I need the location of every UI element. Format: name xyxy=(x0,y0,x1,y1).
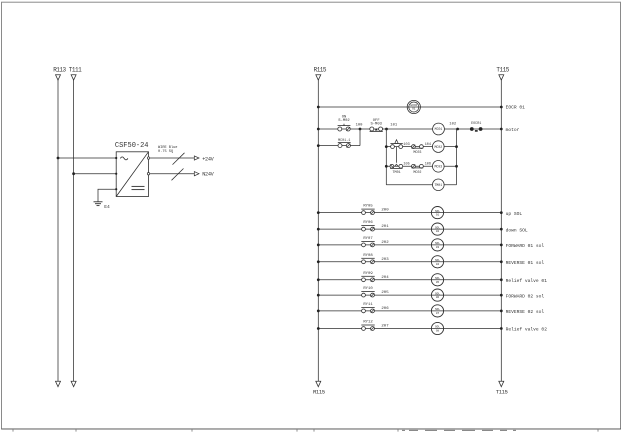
svg-text:SOL: SOL xyxy=(435,308,440,311)
junction node 102 xyxy=(456,128,459,131)
node 201 label xyxy=(381,225,389,229)
rail wire T115 (vertical) xyxy=(500,79,502,382)
mechanical link TM01 contacts xyxy=(396,147,398,163)
svg-text:MC02: MC02 xyxy=(413,171,421,175)
timer coil TM01 xyxy=(433,179,445,191)
wire R113 to U1 input L xyxy=(58,157,116,159)
svg-text:07: 07 xyxy=(436,312,440,315)
junction T115/EOCR rung xyxy=(500,106,503,109)
junction R115/motor rung xyxy=(317,128,320,131)
net label T115 (top) xyxy=(496,66,509,73)
solenoid coil SOL 03 xyxy=(431,239,443,251)
node 203 label xyxy=(381,258,389,262)
relay contact RY08 (NO) xyxy=(361,254,374,264)
net label R115 (bottom) xyxy=(313,389,325,396)
junction R115/down SOL rung xyxy=(317,228,320,231)
junction T115/FORWARD 01 sol rung xyxy=(500,244,503,247)
node 102 label xyxy=(449,123,457,127)
wire FORWARD 02 sol rung xyxy=(318,294,501,296)
junction node 101 xyxy=(385,128,388,131)
wire Relief valve 02 rung xyxy=(318,328,501,330)
svg-text:S-M03: S-M03 xyxy=(370,123,382,127)
svg-text:EOCR1: EOCR1 xyxy=(471,122,481,126)
junction T115/REVERSE 01 sol rung xyxy=(500,260,503,263)
svg-text:03: 03 xyxy=(436,246,440,249)
off-page arrow R113 (bottom) xyxy=(56,381,61,386)
solenoid coil SOL 08 xyxy=(431,322,443,334)
off-page arrow N24V xyxy=(194,172,199,176)
net label R113 xyxy=(53,66,66,73)
interlock contact MC03-b (NC) xyxy=(412,145,424,155)
U1 pin N terminal xyxy=(115,173,117,175)
solenoid coil SOL 05 xyxy=(431,274,443,286)
svg-text:06: 06 xyxy=(436,296,440,299)
rung name label Relief valve 01 xyxy=(506,278,548,284)
contactor coil MC01 xyxy=(433,123,445,135)
rail wire T111 (vertical) xyxy=(73,79,75,382)
wire FORWARD 01 sol rung xyxy=(318,244,501,246)
svg-text:SOL: SOL xyxy=(435,242,440,245)
net label N24V xyxy=(202,172,214,178)
junction T115/down SOL rung xyxy=(500,228,503,231)
U1 pin L terminal xyxy=(115,157,117,159)
svg-text:+24V: +24V xyxy=(202,156,214,162)
svg-text:RY12: RY12 xyxy=(363,321,373,325)
svg-text:RY09: RY09 xyxy=(363,272,373,276)
svg-text:MC03: MC03 xyxy=(434,165,442,169)
junction R115/up SOL rung xyxy=(317,211,320,214)
solenoid coil SOL 07 xyxy=(431,305,443,317)
rail wire R115 (vertical) xyxy=(317,79,319,382)
wire slash mark (+24V) xyxy=(173,153,185,165)
svg-text:0.75 SQ: 0.75 SQ xyxy=(158,150,173,154)
svg-text:05: 05 xyxy=(436,281,440,284)
wire slash mark (N24V) xyxy=(172,169,184,181)
rung name label EOCR 01 xyxy=(506,105,526,111)
junction T115/Relief valve 01 rung xyxy=(500,278,503,281)
relay contact RY07 (NO) xyxy=(361,237,374,247)
svg-text:motor: motor xyxy=(506,127,520,133)
svg-text:REVERSE 01 sol: REVERSE 01 sol xyxy=(506,260,545,266)
junction feeder/MC02 rung xyxy=(385,145,388,148)
svg-text:204: 204 xyxy=(381,276,389,280)
rung name label motor xyxy=(506,127,520,133)
source arrow R115 (top) xyxy=(316,75,321,80)
node 105 label xyxy=(403,163,409,167)
off-page arrow T115 (bottom) xyxy=(499,381,504,386)
source arrow T115 (top) xyxy=(499,75,504,80)
svg-text:206: 206 xyxy=(381,307,389,311)
junction R115/FORWARD 01 sol rung xyxy=(317,244,320,247)
svg-text:105: 105 xyxy=(403,163,409,167)
svg-text:SOL: SOL xyxy=(435,259,440,262)
wire T111 to U1 input N xyxy=(74,173,117,175)
junction T115/Relief valve 02 rung xyxy=(500,327,503,330)
relay contact RY11 (NO) xyxy=(361,303,374,313)
svg-text:RY07: RY07 xyxy=(363,237,373,241)
svg-text:RY08: RY08 xyxy=(363,254,373,258)
svg-text:T115: T115 xyxy=(496,66,509,73)
wire MC03 rung xyxy=(386,165,456,167)
svg-text:RY10: RY10 xyxy=(363,287,373,291)
contactor coil MC02 xyxy=(433,141,445,153)
svg-text:REVERSE 02 sol: REVERSE 02 sol xyxy=(506,309,545,315)
svg-text:01: 01 xyxy=(412,107,416,110)
node 101 label xyxy=(390,124,398,128)
node 205 label xyxy=(381,291,389,295)
ground designator E4 xyxy=(104,204,110,210)
junction R115/REVERSE 02 sol rung xyxy=(317,310,320,313)
U1 pin +V terminal xyxy=(147,157,149,159)
svg-text:S-M02: S-M02 xyxy=(338,119,350,123)
junction T115/up SOL rung xyxy=(500,211,503,214)
svg-text:202: 202 xyxy=(381,241,389,245)
junction collector/MC02 rung xyxy=(455,145,458,148)
junction T115/motor rung xyxy=(500,128,503,131)
rung name label REVERSE 02 sol xyxy=(506,309,545,315)
junction collector/MC03 rung xyxy=(455,165,458,168)
rung name label down SOL xyxy=(506,227,528,233)
wire collector vertical (node 102 down) xyxy=(456,129,458,185)
rung name label FORWARD 02 sol xyxy=(506,293,545,299)
source arrow R113 (top) xyxy=(56,75,61,80)
svg-text:Relief valve 01: Relief valve 01 xyxy=(506,278,548,284)
net label +24V xyxy=(202,156,214,162)
svg-text:SOL: SOL xyxy=(435,292,440,295)
junction on T111 xyxy=(72,172,75,175)
svg-text:101: 101 xyxy=(390,124,398,128)
node 103 label xyxy=(403,143,409,147)
svg-text:T115: T115 xyxy=(496,389,508,396)
interlock contact MC02-b (NC) xyxy=(412,164,424,174)
svg-text:RY11: RY11 xyxy=(363,303,373,307)
svg-text:E4: E4 xyxy=(104,204,110,210)
wire MC02 rung xyxy=(386,146,456,148)
pushbutton ON S-M02 (NO) xyxy=(338,116,351,131)
junction R115/MC01-1 branch xyxy=(317,144,320,147)
wire MC01-1 branch from R115 xyxy=(318,145,360,147)
svg-text:103: 103 xyxy=(403,143,409,147)
svg-text:TM01: TM01 xyxy=(434,183,442,187)
net label T115 (bottom) xyxy=(496,389,508,396)
junction R115/Relief valve 02 rung xyxy=(317,327,320,330)
junction R115/Relief valve 01 rung xyxy=(317,278,320,281)
wire Relief valve 01 rung xyxy=(318,279,501,281)
junction node 100 xyxy=(359,128,362,131)
svg-text:104: 104 xyxy=(425,143,431,147)
relay contact RY05 (NO) xyxy=(361,205,374,215)
power supply U1 value label CSF50-24 xyxy=(115,142,149,150)
svg-text:04: 04 xyxy=(436,263,440,266)
junction T115/FORWARD 02 sol rung xyxy=(500,294,503,297)
svg-text:MC01: MC01 xyxy=(435,127,443,131)
svg-text:106: 106 xyxy=(425,162,431,166)
relay contact RY10 (NO) xyxy=(361,287,374,297)
rung name label up SOL xyxy=(506,211,523,217)
svg-text:08: 08 xyxy=(436,330,440,333)
solenoid coil SOL 02 xyxy=(431,223,443,235)
svg-text:down SOL: down SOL xyxy=(506,227,528,233)
svg-text:FORWARD 02 sol: FORWARD 02 sol xyxy=(506,293,545,299)
wire U1 +V output to +24V xyxy=(149,157,195,159)
power supply U1 (AC/DC converter box) xyxy=(116,152,148,197)
relay contact RY12 (NO) xyxy=(361,321,374,331)
auxiliary contact MC01-1 (NO) xyxy=(338,139,351,148)
timer contact TM01-b (NC) xyxy=(390,164,403,175)
svg-text:207: 207 xyxy=(381,325,389,329)
wire MC01-1 branch up to node 100 xyxy=(359,129,361,146)
U1 pin FG terminal xyxy=(115,188,117,190)
wire U1 FG to ground xyxy=(98,189,116,201)
wire TM01 rung xyxy=(386,184,456,186)
svg-text:T111: T111 xyxy=(69,66,82,73)
svg-text:205: 205 xyxy=(381,291,389,295)
svg-text:Relief valve 02: Relief valve 02 xyxy=(506,327,548,333)
wire up SOL rung xyxy=(318,212,501,214)
rung name label Relief valve 02 xyxy=(506,327,548,333)
wire REVERSE 01 sol rung xyxy=(318,261,501,263)
svg-text:02: 02 xyxy=(436,230,440,233)
svg-text:RY06: RY06 xyxy=(363,221,373,225)
node 200 label xyxy=(381,209,389,213)
junction on R113 xyxy=(57,157,60,160)
svg-text:FORWARD 01 sol: FORWARD 01 sol xyxy=(506,243,545,249)
rung name label FORWARD 01 sol xyxy=(506,243,545,249)
junction feeder/MC03 rung xyxy=(385,165,388,168)
wire U1 -V output to N24V xyxy=(149,173,195,175)
junction T115/REVERSE 02 sol rung xyxy=(500,310,503,313)
svg-text:MC03: MC03 xyxy=(413,151,421,155)
wire EOCR rung xyxy=(318,106,501,108)
node 104 label xyxy=(425,143,431,147)
svg-text:SOL: SOL xyxy=(435,226,440,229)
node 202 label xyxy=(381,241,389,245)
relay contact RY09 (NO) xyxy=(361,272,374,282)
off-page arrow R115 (bottom) xyxy=(316,381,321,386)
svg-text:N24V: N24V xyxy=(202,172,214,178)
svg-text:201: 201 xyxy=(381,225,389,229)
svg-text:SOL: SOL xyxy=(435,210,440,213)
svg-text:up SOL: up SOL xyxy=(506,211,523,217)
svg-text:SOL: SOL xyxy=(435,277,440,280)
timer contact TM01-a (on-delay NO) xyxy=(390,140,402,149)
junction R115/EOCR rung xyxy=(317,106,320,109)
svg-text:100: 100 xyxy=(356,123,364,127)
svg-text:TM01: TM01 xyxy=(393,171,401,175)
svg-text:RY05: RY05 xyxy=(363,205,373,209)
svg-text:EOCR 01: EOCR 01 xyxy=(506,105,526,111)
solenoid coil SOL 04 xyxy=(431,256,443,268)
wire feeder vertical (node 101 down) xyxy=(385,129,387,185)
node 206 label xyxy=(381,307,389,311)
svg-text:R113: R113 xyxy=(53,66,66,73)
node 207 label xyxy=(381,325,389,329)
rail wire R113 (vertical) xyxy=(57,79,59,382)
svg-text:01: 01 xyxy=(436,214,440,217)
ground E4 xyxy=(94,202,103,206)
junction R115/FORWARD 02 sol rung xyxy=(317,294,320,297)
wire note WIRE Blue 0.75 SQ xyxy=(158,145,177,154)
relay contact RY06 (NO) xyxy=(361,221,374,231)
solenoid coil SOL 06 xyxy=(431,289,443,301)
svg-text:CSF50-24: CSF50-24 xyxy=(115,142,149,150)
off-page arrow +24V xyxy=(194,156,199,160)
solenoid coil SOL 01 xyxy=(431,207,443,219)
svg-text:R115: R115 xyxy=(314,66,327,73)
wire down SOL rung xyxy=(318,228,501,230)
contactor coil MC03 xyxy=(433,161,445,173)
source arrow T111 (top) xyxy=(71,75,76,80)
off-page arrow T111 (bottom) xyxy=(71,381,76,386)
svg-text:MC01-1: MC01-1 xyxy=(338,139,350,143)
wire REVERSE 02 sol rung xyxy=(318,310,501,312)
svg-text:SOL: SOL xyxy=(435,326,440,329)
node 204 label xyxy=(381,276,389,280)
svg-text:MC02: MC02 xyxy=(434,145,442,149)
svg-text:102: 102 xyxy=(449,123,457,127)
node 106 label xyxy=(425,162,431,166)
net label T111 xyxy=(69,66,82,73)
pushbutton OFF S-M03 (NC) xyxy=(370,119,383,132)
svg-text:R115: R115 xyxy=(313,389,325,396)
rung name label REVERSE 01 sol xyxy=(506,260,545,266)
node 100 label xyxy=(356,123,364,127)
svg-text:203: 203 xyxy=(381,258,389,262)
wire motor rung xyxy=(318,128,501,130)
junction R115/REVERSE 01 sol rung xyxy=(317,260,320,263)
net label R115 (top) xyxy=(314,66,327,73)
overload contact EOCR1 (NC) xyxy=(470,122,483,131)
svg-text:200: 200 xyxy=(381,209,389,213)
U1 pin -V terminal xyxy=(147,173,149,175)
relay EOCR 01 (overload relay, double circle) xyxy=(407,100,420,113)
